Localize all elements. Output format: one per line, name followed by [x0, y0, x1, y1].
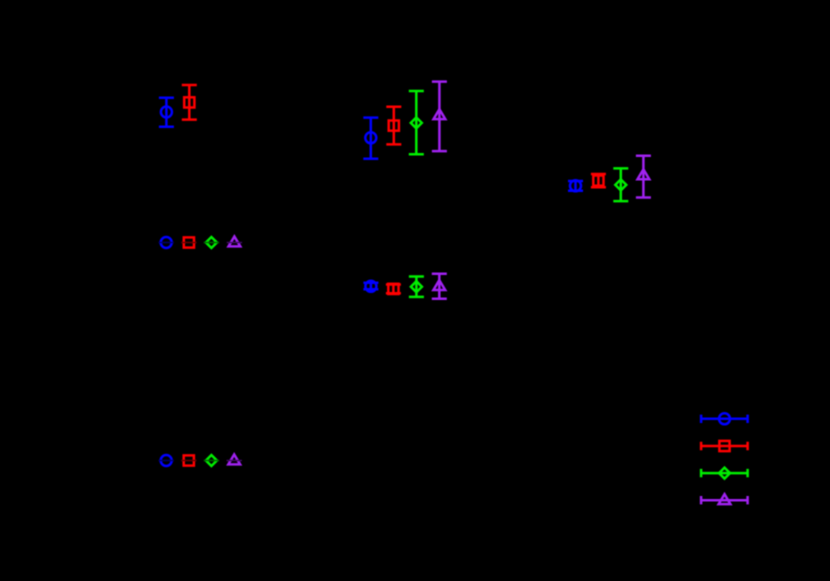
- point B3 green diamond zero error: [204, 237, 219, 248]
- point E1 blue circle zero error: [159, 455, 174, 466]
- point G4 purple triangle with error bar: [636, 156, 651, 198]
- point D1 blue circle with error bar: [363, 281, 378, 292]
- point G1 blue circle with error bar: [568, 180, 583, 191]
- point D3 green diamond with error bar: [409, 277, 424, 297]
- point B2 red square zero error: [181, 237, 196, 247]
- point A2 red square with error bar: [182, 85, 197, 120]
- point G2 red square with error bar: [591, 174, 606, 187]
- point D2 red square with error bar: [386, 284, 401, 294]
- point G3 green diamond with error bar: [613, 168, 628, 201]
- legend series 1 blue circle: [701, 413, 748, 424]
- point E2 red square zero error: [181, 455, 196, 465]
- point B4 purple triangle zero error: [227, 237, 242, 247]
- point D4 purple triangle with error bar: [432, 274, 447, 299]
- point C2 red square with error bar: [386, 107, 401, 145]
- point C3 green diamond with error bar: [409, 91, 424, 154]
- point E3 green diamond zero error: [204, 455, 219, 466]
- point C4 purple triangle with error bar: [432, 82, 447, 152]
- point C1 blue circle with error bar: [363, 118, 378, 159]
- point E4 purple triangle zero error: [227, 455, 242, 465]
- legend series 2 red square: [701, 441, 748, 451]
- point A1 blue circle with error bar: [159, 98, 174, 127]
- legend series 3 green diamond: [701, 468, 748, 479]
- point B1 blue circle zero error: [159, 237, 174, 248]
- legend series 4 purple triangle: [701, 494, 748, 504]
